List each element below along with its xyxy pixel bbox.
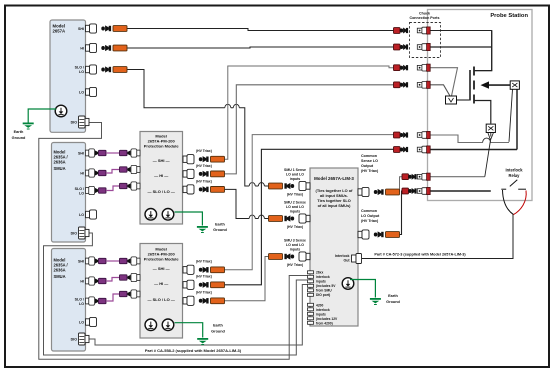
svg-text:inputs: inputs	[290, 248, 301, 252]
svg-text:— SLO / LO —: — SLO / LO —	[148, 297, 175, 302]
svg-text:LO Output: LO Output	[361, 214, 380, 218]
svg-text:HI: HI	[80, 47, 84, 51]
svg-text:— HI —: — HI —	[154, 173, 168, 178]
svg-text:Earth: Earth	[14, 130, 24, 134]
svg-text:from 4200): from 4200)	[316, 322, 333, 326]
svg-text:LO: LO	[79, 321, 84, 325]
svg-text:Earth: Earth	[215, 222, 225, 226]
svg-text:LO and LO: LO and LO	[286, 243, 304, 247]
svg-text:DIO: DIO	[71, 338, 78, 342]
svg-text:DIO: DIO	[71, 121, 78, 125]
svg-text:interlock: interlock	[316, 275, 330, 279]
svg-text:Protection Module: Protection Module	[144, 144, 180, 149]
svg-text:Output: Output	[361, 164, 374, 168]
svg-text:— HI —: — HI —	[154, 281, 168, 286]
svg-text:2636A: 2636A	[54, 268, 66, 273]
svg-text:26xx: 26xx	[316, 271, 324, 275]
svg-text:Probe Station: Probe Station	[490, 13, 528, 19]
svg-text:(HV Triax): (HV Triax)	[196, 149, 212, 153]
svg-text:Interlock: Interlock	[505, 168, 523, 173]
svg-text:LO: LO	[79, 191, 84, 195]
svg-text:4200: 4200	[316, 304, 324, 308]
svg-text:Part # CA-558-2 (supplied with: Part # CA-558-2 (supplied with Model 265…	[145, 348, 242, 353]
svg-text:SMU 2 Sense: SMU 2 Sense	[284, 201, 306, 205]
svg-text:inputs: inputs	[316, 280, 326, 284]
svg-text:(HV Triax): (HV Triax)	[287, 263, 303, 267]
svg-text:Ground: Ground	[211, 330, 225, 334]
svg-text:SHI: SHI	[78, 152, 84, 156]
svg-text:Earth: Earth	[388, 294, 398, 298]
svg-text:(includes 5V: (includes 5V	[316, 284, 336, 288]
svg-text:(HV Triax): (HV Triax)	[196, 180, 212, 184]
svg-text:inputs: inputs	[290, 177, 301, 181]
svg-text:Earth: Earth	[213, 324, 223, 328]
svg-text:Ground: Ground	[12, 136, 26, 140]
svg-text:LO: LO	[79, 91, 84, 95]
svg-text:Part # CA-572-3 (supplied with: Part # CA-572-3 (supplied with Model 265…	[374, 252, 466, 256]
svg-text:Common: Common	[361, 154, 378, 158]
svg-text:inputs: inputs	[316, 313, 326, 317]
svg-text:HI: HI	[80, 172, 84, 176]
svg-text:Model 2657A-LIM-3: Model 2657A-LIM-3	[314, 176, 354, 181]
svg-text:SMUA: SMUA	[54, 166, 66, 171]
svg-text:of all input SMUs): of all input SMUs)	[318, 203, 352, 208]
svg-text:Common: Common	[361, 209, 378, 213]
svg-text:— SHI —: — SHI —	[153, 158, 170, 163]
svg-text:(HV Triax): (HV Triax)	[287, 225, 303, 229]
svg-text:(HV Triax): (HV Triax)	[196, 260, 212, 264]
svg-text:Protection Module: Protection Module	[144, 257, 180, 262]
svg-text:interlock: interlock	[316, 308, 330, 312]
svg-text:— SHI —: — SHI —	[153, 266, 170, 271]
svg-text:LO and LO: LO and LO	[286, 173, 304, 177]
svg-text:(HV Triax): (HV Triax)	[287, 193, 303, 197]
svg-text:(HV Triax): (HV Triax)	[361, 169, 379, 173]
svg-text:Out: Out	[343, 259, 350, 263]
svg-text:(HV Triax): (HV Triax)	[196, 291, 212, 295]
svg-text:Ground: Ground	[386, 300, 400, 304]
svg-text:DIO: DIO	[71, 232, 78, 236]
svg-text:— SLO / LO —: — SLO / LO —	[148, 189, 175, 194]
svg-text:SHI: SHI	[78, 260, 84, 264]
svg-text:LO: LO	[79, 302, 84, 306]
svg-text:inputs: inputs	[290, 210, 301, 214]
svg-text:Ground: Ground	[213, 228, 227, 232]
svg-text:SMU 3 Sense: SMU 3 Sense	[284, 239, 306, 243]
svg-text:2657A: 2657A	[53, 29, 66, 34]
svg-text:2636A: 2636A	[54, 160, 66, 165]
svg-text:(HV Triax): (HV Triax)	[196, 275, 212, 279]
svg-text:Interlock: Interlock	[335, 254, 350, 258]
svg-text:SMU 1 Sense: SMU 1 Sense	[284, 168, 306, 172]
svg-text:from SMU: from SMU	[316, 289, 332, 293]
svg-text:(HV Triax): (HV Triax)	[196, 164, 212, 168]
svg-text:(includes 12V: (includes 12V	[316, 317, 338, 321]
svg-text:SMUA: SMUA	[54, 274, 66, 279]
svg-text:LO and LO: LO and LO	[286, 205, 304, 209]
svg-text:Chuck: Chuck	[419, 12, 430, 16]
svg-text:LO: LO	[79, 213, 84, 217]
svg-text:Connection Ports: Connection Ports	[410, 16, 440, 20]
svg-text:HI: HI	[80, 280, 84, 284]
svg-text:(HV Triax): (HV Triax)	[361, 219, 379, 223]
svg-text:Sense LO: Sense LO	[361, 159, 378, 163]
svg-text:DIO port): DIO port)	[316, 293, 330, 297]
svg-text:LO: LO	[79, 70, 84, 74]
svg-text:SHI: SHI	[78, 27, 84, 31]
svg-text:Relay: Relay	[509, 173, 521, 178]
